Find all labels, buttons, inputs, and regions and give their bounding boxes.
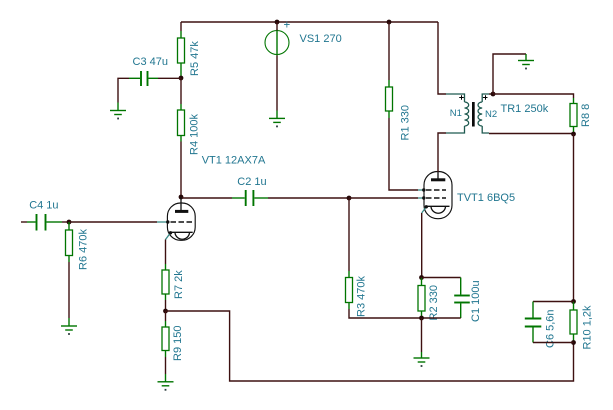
svg-text:C4 1u: C4 1u bbox=[29, 200, 58, 212]
wire C3 right to junction bbox=[158, 77, 181, 79]
svg-text:R2 330: R2 330 bbox=[428, 285, 440, 320]
wire C3 left to ground bbox=[118, 78, 129, 102]
svg-text:N1: N1 bbox=[450, 108, 462, 119]
node R10 top junction bbox=[571, 299, 576, 304]
wire VT1 cathode down bbox=[165, 240, 167, 265]
svg-text:TVT1 6BQ5: TVT1 6BQ5 bbox=[457, 192, 515, 204]
wire cathode node to C1 bbox=[422, 277, 461, 279]
node junction R5/R4/C3 bbox=[179, 76, 184, 81]
wire N2 top to junction bbox=[489, 93, 493, 95]
wire VS1 bottom to ground bbox=[276, 56, 278, 111]
wire TVT1 anode to N1 bottom bbox=[438, 133, 446, 172]
node VS1 top junction bbox=[275, 20, 280, 25]
resistor R8 bbox=[570, 98, 577, 134]
TVT1 screen pin dot bbox=[422, 188, 425, 191]
resistor R1 bbox=[386, 80, 393, 118]
wire VT1 anode to C2 bbox=[181, 197, 232, 199]
wire VS1 top bbox=[276, 22, 278, 31]
ground under R6 bbox=[61, 318, 77, 335]
TR1 polarity plus N2 bbox=[483, 95, 488, 100]
svg-text:R3 470k: R3 470k bbox=[356, 276, 368, 317]
node grid junction bbox=[347, 196, 352, 201]
node R7/R9 junction bbox=[163, 309, 168, 314]
wire R10 top to C6 bbox=[533, 301, 574, 303]
resistor R3 bbox=[346, 271, 353, 309]
wire input stub bbox=[21, 221, 27, 223]
TVT1 cathode pin dot bbox=[425, 205, 428, 208]
capacitor C1 bbox=[454, 278, 470, 319]
capacitor C3 bbox=[129, 71, 158, 86]
wire top rail bbox=[181, 21, 438, 23]
TVT1 control grid pin bbox=[418, 197, 424, 199]
svg-text:R5 47k: R5 47k bbox=[189, 41, 201, 76]
svg-text:+: + bbox=[284, 20, 291, 32]
node R8 bottom junction bbox=[571, 132, 576, 137]
wire junction up to ground bbox=[493, 54, 526, 94]
node R1 top junction bbox=[387, 20, 392, 25]
ground top right bbox=[518, 54, 534, 69]
node VT1 anode junction bbox=[179, 195, 184, 200]
resistor R6 bbox=[66, 222, 73, 262]
svg-text:C2 1u: C2 1u bbox=[237, 176, 266, 188]
resistor R7 bbox=[162, 264, 169, 300]
svg-text:R4 100k: R4 100k bbox=[189, 114, 201, 155]
transformer TR1 winding N1 bbox=[446, 94, 469, 133]
TVT1 screen grid pin bbox=[418, 189, 424, 191]
wire C6 bottom to R10 bottom bbox=[533, 342, 574, 344]
wire junction to R4 bbox=[180, 78, 182, 104]
wire right rail down bbox=[573, 134, 575, 302]
wire grid node down to R3 bbox=[348, 198, 350, 271]
VT1 grid pin bbox=[157, 221, 168, 223]
svg-text:VS1 270: VS1 270 bbox=[300, 33, 342, 45]
capacitor C2 bbox=[232, 190, 268, 206]
wire rail to R1 bbox=[388, 22, 390, 80]
wire C4 to R6 node bbox=[62, 221, 69, 223]
VT1 cathode pin dot bbox=[169, 231, 172, 234]
resistor R2 bbox=[418, 278, 425, 319]
VT1 grid pin dot bbox=[166, 220, 169, 223]
ground under VS1 bbox=[269, 111, 285, 128]
capacitor C6 bbox=[525, 302, 542, 343]
wire R9 to ground bbox=[165, 357, 167, 374]
wire R2 bottom to ground bbox=[421, 318, 423, 352]
triode VT1 bbox=[167, 197, 195, 240]
ground under C3 bbox=[110, 103, 126, 120]
svg-text:C3 47u: C3 47u bbox=[133, 56, 168, 68]
VT1 cathode pin bbox=[166, 233, 171, 240]
resistor R5 bbox=[178, 31, 185, 77]
TR1 polarity plus N1 bbox=[459, 95, 464, 100]
wire R3 bottom to cathode ground node bbox=[349, 309, 422, 318]
wire TVT1 cathode down bbox=[421, 213, 423, 278]
wire rail corner to transformer N1 bbox=[438, 22, 446, 94]
svg-text:C1 100u: C1 100u bbox=[470, 280, 482, 322]
svg-text:N2: N2 bbox=[485, 109, 497, 120]
node C4/R6 junction bbox=[67, 220, 72, 225]
wire R1 to TVT1 screen grid bbox=[389, 118, 418, 190]
wire feedback from R7/R9 node bbox=[166, 311, 574, 381]
TVT1 cathode pin bbox=[422, 207, 427, 213]
node N2 top junction bbox=[491, 92, 496, 97]
wire node to R9 bbox=[165, 311, 167, 321]
node R10 bottom junction bbox=[571, 340, 576, 345]
TR1 core bbox=[472, 102, 475, 127]
svg-text:R10 1,2k: R10 1,2k bbox=[582, 305, 594, 350]
wire C1 bottom to node bbox=[422, 317, 461, 319]
resistor R10 bbox=[570, 302, 577, 343]
resistor R4 bbox=[178, 104, 185, 142]
wire R7 to node bbox=[165, 300, 167, 311]
wire N2 bottom to R8 bottom bbox=[489, 133, 574, 135]
svg-text:TR1 250k: TR1 250k bbox=[501, 103, 549, 115]
pentode TVT1 bbox=[424, 172, 452, 219]
wire C2 to grid node bbox=[268, 197, 349, 199]
wire junction to VT1 grid bbox=[69, 221, 157, 223]
svg-text:R1 330: R1 330 bbox=[400, 105, 412, 140]
wire R5 top from rail bbox=[180, 22, 182, 31]
resistor R9 bbox=[162, 321, 169, 357]
voltage source VS1 bbox=[265, 30, 289, 56]
svg-text:R6 470k: R6 470k bbox=[78, 229, 90, 270]
TVT1 control pin dot bbox=[422, 196, 425, 199]
wire junction to R8 bbox=[493, 94, 574, 98]
wire R4 to VT1 anode node bbox=[180, 142, 182, 197]
node cathode junction bbox=[419, 275, 424, 280]
capacitor C4 bbox=[27, 214, 62, 231]
wire grid node to TVT1 control grid bbox=[349, 197, 418, 199]
node R2 bottom junction bbox=[419, 316, 424, 321]
transformer TR1 winding N2 bbox=[478, 94, 489, 133]
svg-text:R9 150: R9 150 bbox=[172, 326, 184, 361]
svg-text:VT1 12AX7A: VT1 12AX7A bbox=[202, 155, 266, 167]
ground under R2 bbox=[414, 352, 430, 367]
svg-text:R8 8: R8 8 bbox=[580, 104, 592, 127]
svg-text:R7 2k: R7 2k bbox=[173, 270, 185, 299]
wire R6 to ground bbox=[68, 262, 70, 318]
ground under R9 bbox=[158, 374, 174, 391]
